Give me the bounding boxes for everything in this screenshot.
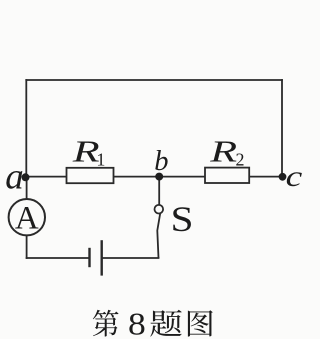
wire R1 to b (114, 176, 160, 178)
wire R2 to c (249, 176, 282, 178)
node c (279, 173, 287, 181)
resistor R1 (67, 168, 114, 183)
svg-text:S: S (171, 199, 194, 239)
battery negative plate (short) (88, 248, 90, 267)
svg-text:A: A (15, 201, 39, 237)
svg-text:R: R (209, 135, 237, 169)
wire b to R2 (159, 176, 205, 178)
wire left vertical (a to top) (25, 80, 27, 177)
wire bottom left (corner to battery) (27, 257, 89, 259)
node b (155, 173, 163, 181)
switch S lever (157, 213, 160, 258)
resistor R2 (205, 168, 249, 183)
wire a to R1 (26, 176, 66, 178)
wire right vertical (c to top) (281, 80, 283, 177)
svg-text:8: 8 (128, 307, 146, 339)
wire top horizontal (26, 79, 282, 81)
node a (22, 173, 30, 181)
wire ammeter down to bottom corner (26, 235, 28, 258)
ammeter A1 circle (9, 199, 45, 235)
wire a down to ammeter (26, 177, 28, 199)
caption char 第 (93, 310, 119, 337)
svg-text:a: a (5, 157, 24, 198)
caption char 题 (150, 310, 181, 337)
svg-text:2: 2 (236, 150, 245, 170)
svg-text:1: 1 (96, 150, 105, 170)
wire bottom right (battery to switch corner) (103, 257, 159, 259)
caption char 图 (188, 310, 213, 336)
battery positive plate (tall) (100, 240, 102, 275)
wire b down to switch (158, 177, 160, 205)
svg-text:c: c (286, 160, 302, 193)
svg-text:b: b (154, 146, 168, 177)
switch S circle terminal (155, 205, 164, 214)
